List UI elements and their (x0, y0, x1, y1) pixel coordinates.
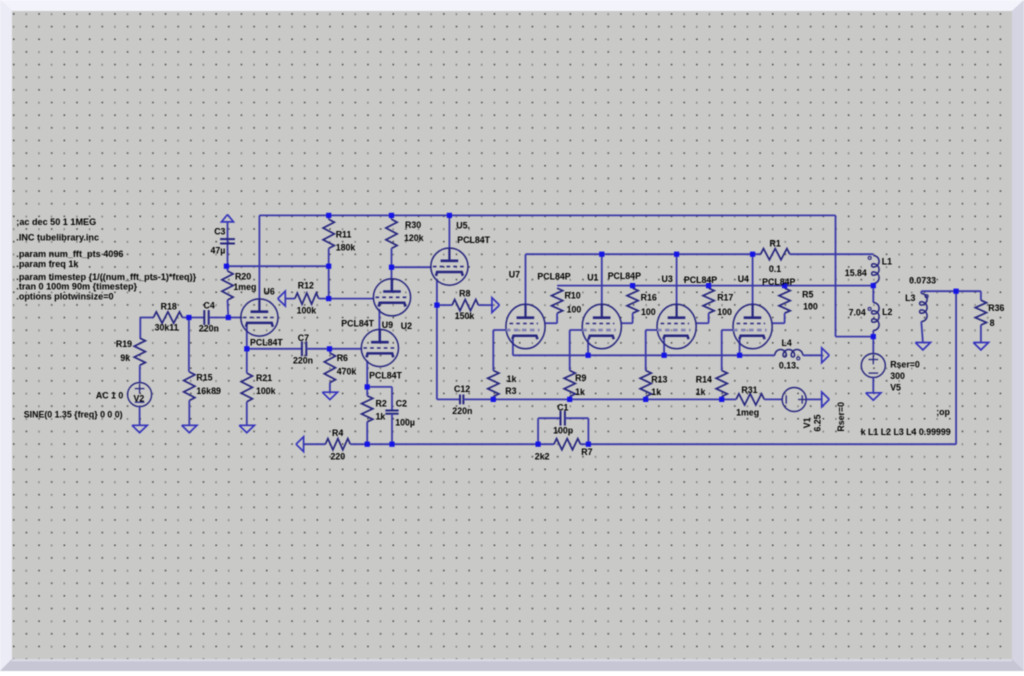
svg-text:2k2: 2k2 (535, 451, 550, 461)
svg-text:U9: U9 (382, 320, 393, 330)
svg-text:SINE(0 1.35 {freq} 0 0 0): SINE(0 1.35 {freq} 0 0 0) (24, 410, 123, 420)
svg-text:PCL84T: PCL84T (341, 319, 374, 329)
svg-text:1k: 1k (575, 387, 585, 397)
svg-text:1k: 1k (696, 387, 706, 397)
svg-text:U6: U6 (264, 286, 275, 296)
svg-text:R36: R36 (988, 303, 1004, 313)
svg-text:.param freq 1k: .param freq 1k (16, 259, 79, 269)
svg-text:V2: V2 (134, 394, 145, 404)
svg-text:PCL84T: PCL84T (457, 235, 490, 245)
svg-text:300: 300 (890, 371, 905, 381)
svg-text:R9: R9 (575, 373, 586, 383)
svg-text:PCL84P: PCL84P (684, 275, 717, 285)
svg-text:R31: R31 (741, 385, 757, 395)
svg-text:.param num_fft_pts 4096: .param num_fft_pts 4096 (16, 249, 123, 259)
svg-text:C3: C3 (214, 226, 225, 236)
svg-text:k L1 L2 L3 L4 0.99999: k L1 L2 L3 L4 0.99999 (861, 427, 951, 437)
svg-text:R7: R7 (581, 447, 592, 457)
svg-text:R4: R4 (332, 428, 343, 438)
svg-text:C2: C2 (396, 398, 407, 408)
svg-text:180k: 180k (336, 243, 356, 253)
svg-text:100: 100 (717, 307, 732, 317)
svg-text:1k: 1k (376, 412, 386, 422)
svg-text:PCL84T: PCL84T (250, 337, 283, 347)
svg-text:R20: R20 (235, 272, 251, 282)
svg-text:47µ: 47µ (211, 245, 226, 255)
svg-text:1meg: 1meg (736, 408, 759, 418)
svg-text:Rser=0: Rser=0 (836, 402, 846, 432)
svg-text:6.25: 6.25 (813, 414, 823, 431)
svg-text:U7: U7 (509, 269, 520, 279)
svg-text:U1: U1 (587, 272, 598, 282)
svg-text:R10: R10 (565, 291, 581, 301)
svg-text:C4: C4 (204, 301, 215, 311)
svg-text:100: 100 (803, 301, 818, 311)
svg-text:150k: 150k (455, 311, 475, 321)
svg-text:0.0733: 0.0733 (909, 276, 936, 286)
svg-text:R17: R17 (717, 293, 733, 303)
svg-text:R13: R13 (651, 374, 667, 384)
svg-text:R30: R30 (405, 220, 421, 230)
svg-text:7.04: 7.04 (849, 307, 866, 317)
svg-text:100µ: 100µ (395, 417, 415, 427)
svg-text:100p: 100p (553, 426, 574, 436)
svg-text:R14: R14 (696, 374, 712, 384)
svg-text:R12: R12 (298, 281, 314, 291)
svg-text:;ac dec 50 1 1MEG: ;ac dec 50 1 1MEG (16, 217, 96, 227)
svg-text:R8: R8 (459, 289, 470, 299)
svg-text:L4: L4 (782, 338, 792, 348)
svg-text:220n: 220n (452, 406, 472, 416)
svg-text:U2: U2 (401, 321, 412, 331)
svg-text:R2: R2 (376, 398, 387, 408)
svg-text:470k: 470k (337, 366, 357, 376)
svg-text:R3: R3 (505, 386, 516, 396)
svg-text:R1: R1 (770, 239, 781, 249)
svg-text:9k: 9k (120, 353, 130, 363)
svg-text:1k: 1k (651, 387, 661, 397)
svg-text:120k: 120k (404, 233, 424, 243)
svg-text:0.1: 0.1 (769, 264, 781, 274)
svg-text:AC 1 0: AC 1 0 (96, 391, 123, 401)
svg-text:100: 100 (641, 307, 656, 317)
svg-text:0.13.: 0.13. (779, 360, 799, 370)
svg-text:1meg: 1meg (233, 282, 256, 292)
svg-text:L2: L2 (882, 307, 892, 317)
svg-text:15.84: 15.84 (845, 268, 867, 278)
svg-text:U3: U3 (662, 274, 673, 284)
svg-text:V5: V5 (890, 383, 901, 393)
svg-text:L1: L1 (882, 257, 892, 267)
svg-text:R15: R15 (196, 373, 212, 383)
svg-text:220n: 220n (199, 323, 219, 333)
svg-text:220n: 220n (293, 356, 313, 366)
svg-text:220: 220 (331, 451, 346, 461)
svg-text:C7: C7 (298, 333, 309, 343)
svg-text:R18: R18 (161, 302, 177, 312)
svg-text:Rser=0: Rser=0 (890, 360, 920, 370)
svg-text:U4: U4 (738, 274, 749, 284)
svg-text:8: 8 (990, 318, 995, 328)
svg-text:PCL84P: PCL84P (762, 277, 795, 287)
svg-text:R21: R21 (256, 373, 272, 383)
svg-text:L3: L3 (905, 293, 915, 303)
svg-text:C1: C1 (557, 402, 568, 412)
svg-text:100k: 100k (297, 305, 317, 315)
svg-text:.options plotwinsize=0: .options plotwinsize=0 (16, 292, 113, 302)
svg-text:1k: 1k (507, 374, 517, 384)
svg-text:;op: ;op (936, 407, 950, 417)
svg-text:PCL84P: PCL84P (608, 271, 641, 281)
svg-text:R11: R11 (336, 230, 352, 240)
svg-text:30k11: 30k11 (155, 323, 179, 333)
svg-text:C12: C12 (454, 384, 470, 394)
svg-text:R5: R5 (802, 290, 813, 300)
svg-text:100k: 100k (256, 386, 276, 396)
svg-text:100: 100 (567, 305, 582, 315)
svg-text:V1: V1 (802, 417, 812, 428)
svg-text:16k89: 16k89 (196, 386, 221, 396)
svg-text:R19: R19 (116, 339, 132, 349)
svg-text:.param timestep {1/((num_fft_p: .param timestep {1/((num_fft_pts-1)*freq… (16, 272, 196, 282)
svg-text:PCL84P: PCL84P (537, 272, 570, 282)
svg-text:U5.: U5. (456, 221, 470, 231)
svg-text:R16: R16 (641, 293, 657, 303)
svg-text:.tran 0 100m 90m {timestep}: .tran 0 100m 90m {timestep} (16, 282, 137, 292)
svg-text:PCL84T: PCL84T (369, 371, 402, 381)
svg-text:R6: R6 (337, 353, 348, 363)
svg-text:.INC tubelibrary.inc: .INC tubelibrary.inc (16, 233, 99, 243)
